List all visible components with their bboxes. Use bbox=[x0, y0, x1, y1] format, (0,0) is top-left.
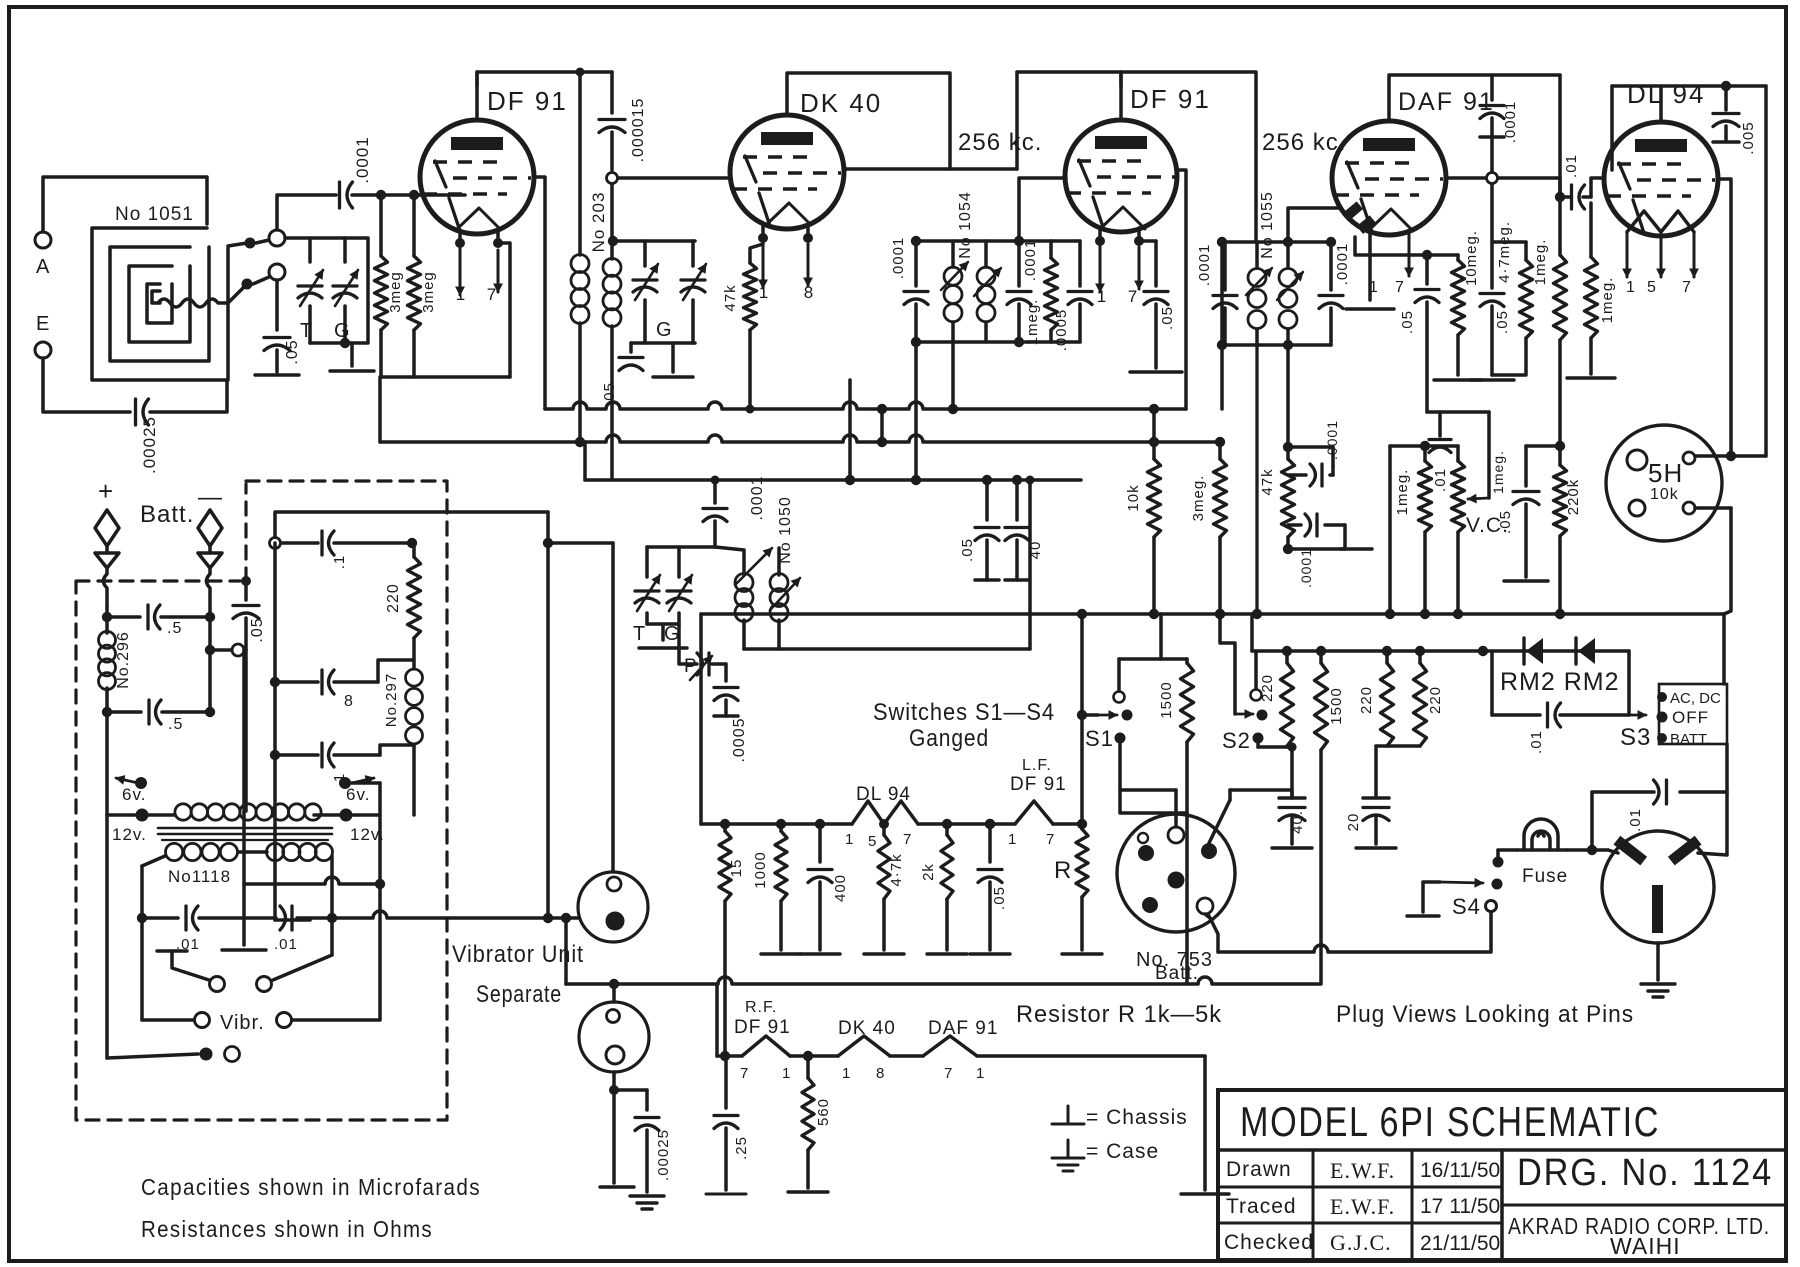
svg-text:Capacities shown in Microfa: Capacities shown in Microfarads bbox=[141, 1174, 481, 1200]
svg-text:220: 220 bbox=[385, 583, 402, 613]
wire plug2 bottom bbox=[612, 1072, 616, 1090]
wire 6v right rail bbox=[351, 781, 380, 785]
svg-text:.000015: .000015 bbox=[630, 98, 647, 163]
terminal A bbox=[35, 232, 51, 248]
node v4 out bbox=[1487, 173, 1498, 184]
ground mixer bbox=[671, 343, 675, 372]
svg-text:No1118: No1118 bbox=[168, 867, 231, 886]
svg-text:256 kc.: 256 kc. bbox=[1262, 129, 1346, 156]
svg-text:1500: 1500 bbox=[1158, 681, 1175, 718]
tube V5 DL94 bbox=[1604, 122, 1718, 236]
capacitor .5 b bbox=[107, 710, 141, 714]
trimmer mixer G bbox=[681, 278, 705, 281]
trimmer G bbox=[333, 284, 357, 287]
wire HT drop left bbox=[699, 614, 703, 824]
svg-text:No.297: No.297 bbox=[383, 673, 400, 727]
svg-text:5: 5 bbox=[1647, 279, 1657, 296]
svg-text:.005: .005 bbox=[1740, 121, 1757, 154]
svg-text:.05: .05 bbox=[991, 886, 1008, 910]
svg-text:Checked: Checked bbox=[1224, 1231, 1314, 1254]
s3 contacts bbox=[1657, 692, 1667, 702]
wire v5 plate right bbox=[1764, 86, 1768, 456]
switch S2 bbox=[1251, 690, 1262, 701]
bus3 to bus2 left link bbox=[583, 442, 587, 480]
svg-text:.0001: .0001 bbox=[749, 475, 766, 520]
svg-text:DF 91: DF 91 bbox=[1130, 84, 1211, 114]
svg-text:.05: .05 bbox=[1399, 310, 1416, 334]
svg-text:1meg.: 1meg. bbox=[1599, 277, 1616, 324]
svg-text:1meg.: 1meg. bbox=[1024, 299, 1041, 346]
coil No296 bbox=[105, 608, 109, 633]
svg-text:Batt.: Batt. bbox=[140, 501, 194, 528]
svg-text:OFF: OFF bbox=[1672, 708, 1709, 727]
tent DF91 fil bbox=[1015, 801, 1053, 824]
resistor 1meg dl a bbox=[1558, 197, 1562, 255]
svg-text:S4: S4 bbox=[1452, 894, 1481, 919]
svg-text:7: 7 bbox=[1128, 287, 1138, 306]
coil 1055 b bbox=[1286, 242, 1290, 267]
svg-text:Plug Views Looking at Pins: Plug Views Looking at Pins bbox=[1336, 1001, 1634, 1028]
terminal aerial coupling 2 bbox=[253, 277, 269, 284]
ground plug ac bbox=[1656, 943, 1660, 980]
resistor 1500 a bbox=[1185, 659, 1189, 663]
svg-text:2k: 2k bbox=[920, 863, 937, 881]
tent DK40 fil bbox=[838, 1036, 890, 1056]
wire s1 top bbox=[1117, 659, 1121, 691]
capacitor .01 s3 bbox=[1546, 703, 1549, 727]
pin v4 7 bbox=[1408, 234, 1411, 276]
svg-text:10k: 10k bbox=[1125, 484, 1142, 511]
resistor 1meg vc pot bbox=[1456, 446, 1460, 461]
tent DL94 filament bbox=[852, 801, 918, 824]
terminal 6v right bbox=[352, 778, 374, 783]
capacitor 40 reservoir bbox=[1012, 475, 1022, 485]
wire 1054 risers bbox=[914, 342, 918, 480]
svg-text:.0001: .0001 bbox=[890, 237, 907, 280]
svg-text:.1: .1 bbox=[331, 555, 348, 570]
wire v2 plate rail bbox=[787, 73, 1017, 169]
wire s1 res rail bbox=[1161, 657, 1187, 661]
svg-text:47k: 47k bbox=[722, 284, 739, 311]
svg-text:1500: 1500 bbox=[1328, 687, 1345, 724]
svg-text:220k: 220k bbox=[1565, 479, 1582, 516]
wire E lead bbox=[43, 358, 130, 412]
terminal 12v left bbox=[136, 809, 149, 822]
resistor 10k det bbox=[1152, 442, 1156, 459]
terminal 6v left bbox=[116, 778, 138, 783]
transformer secondary b bbox=[267, 843, 284, 860]
coil No203 bbox=[578, 72, 582, 255]
capacitor .1 vib a bbox=[320, 531, 323, 555]
wire rm2 loop bbox=[1627, 651, 1631, 715]
wire rm2 top bbox=[1483, 649, 1629, 653]
svg-text:7: 7 bbox=[944, 1065, 953, 1082]
pin v3 7 bbox=[1137, 228, 1141, 241]
coil osc tank a bbox=[715, 547, 744, 575]
connector plug 2 bbox=[579, 1002, 649, 1072]
resistor 1000 bbox=[776, 819, 786, 829]
wire plug2 top bbox=[612, 984, 616, 1002]
svg-text:DK 40: DK 40 bbox=[838, 1018, 896, 1039]
fuse link plus bbox=[95, 510, 119, 546]
svg-text:8: 8 bbox=[344, 693, 354, 710]
svg-text:4·7meg.: 4·7meg. bbox=[1496, 221, 1513, 283]
svg-text:6v.: 6v. bbox=[122, 785, 146, 804]
svg-text:220: 220 bbox=[1358, 686, 1375, 714]
ift1055 frame bbox=[1222, 240, 1331, 244]
node antenna tap 1 bbox=[228, 243, 247, 246]
wire s1 bottom bbox=[1120, 744, 1187, 813]
svg-text:MODEL 6PI SCHEMATIC: MODEL 6PI SCHEMATIC bbox=[1240, 1098, 1660, 1145]
capacitor .0001 1054 left bbox=[914, 241, 918, 286]
wire v4 grid out bbox=[1446, 176, 1492, 180]
svg-text:BATT.: BATT. bbox=[1670, 731, 1710, 748]
capacitor .05 daf b bbox=[1490, 242, 1494, 288]
capacitor 40 electrolytic bbox=[1290, 747, 1294, 798]
svg-text:.01: .01 bbox=[274, 936, 298, 953]
coil osc tank b bbox=[777, 548, 781, 575]
svg-text:.0001: .0001 bbox=[1022, 239, 1039, 282]
wire plus lead bbox=[104, 568, 108, 608]
capacitor .0005 1054 bbox=[1078, 241, 1082, 286]
wire s3 down bbox=[1725, 744, 1729, 792]
svg-text:8: 8 bbox=[876, 1065, 885, 1082]
wire v1 plate down bbox=[534, 177, 545, 409]
node rail 203 bbox=[576, 68, 585, 77]
svg-text:.0005: .0005 bbox=[1053, 309, 1070, 352]
node 1054 bbox=[911, 236, 921, 246]
diode RM2 b bbox=[1578, 638, 1595, 664]
svg-text:E.W.F.: E.W.F. bbox=[1330, 1194, 1395, 1219]
wire trimmer2 box bbox=[647, 545, 715, 549]
wire vib rail bottom bbox=[275, 918, 310, 922]
svg-text:DF 91: DF 91 bbox=[734, 1017, 791, 1038]
plug 5H wires bbox=[1695, 454, 1766, 458]
capacitor .000015 bbox=[610, 72, 614, 113]
coil No297 bbox=[412, 638, 416, 668]
resistor 3meg a bbox=[379, 195, 383, 256]
wire spiral inner tap bbox=[158, 284, 247, 307]
node connector o bbox=[232, 644, 244, 656]
audio filament rail bbox=[701, 822, 852, 826]
wire s4 return bbox=[1330, 912, 1491, 952]
svg-text:S1: S1 bbox=[1085, 726, 1114, 751]
resistor 2k bbox=[946, 823, 948, 825]
svg-text:No 203: No 203 bbox=[589, 192, 608, 253]
wire v4 plate rail bbox=[1389, 75, 1560, 121]
wire vc rail bbox=[1390, 444, 1458, 448]
capacitor .1 vib b bbox=[320, 743, 323, 767]
svg-text:7: 7 bbox=[1046, 831, 1055, 848]
svg-text:DL 94: DL 94 bbox=[856, 784, 911, 805]
capacitor .0001 grid bbox=[338, 182, 341, 208]
capacitor .01 coupling bbox=[1570, 185, 1573, 209]
capacitor .05 audio bbox=[988, 824, 992, 862]
diode plates daf91 bbox=[1344, 201, 1363, 220]
connector plug 1 bbox=[578, 872, 648, 942]
coil L1 spiral loop antenna No1051 bbox=[92, 228, 228, 380]
capacitor .0001 det b bbox=[1315, 514, 1318, 536]
svg-text:RM2 RM2: RM2 RM2 bbox=[1500, 668, 1620, 696]
wire rf chain end bbox=[977, 1054, 1205, 1058]
audio rail mid bbox=[918, 822, 1015, 826]
fuse link minus bbox=[198, 510, 222, 546]
svg-text:7: 7 bbox=[1682, 279, 1692, 296]
svg-text:+: + bbox=[98, 476, 114, 506]
capacitor .5 a bbox=[107, 615, 140, 619]
svg-text:5: 5 bbox=[868, 833, 877, 850]
plug AC pins bbox=[1614, 836, 1648, 866]
wire 12v leads bbox=[107, 813, 136, 817]
svg-text:.05: .05 bbox=[959, 538, 976, 562]
svg-text:Vibrator Unit: Vibrator Unit bbox=[452, 941, 584, 968]
tube V4 DAF91 bbox=[1332, 121, 1446, 235]
bus chassis return bbox=[566, 977, 1320, 984]
svg-text:G: G bbox=[656, 319, 673, 341]
diode RM2 a bbox=[1526, 638, 1543, 664]
svg-text:.0001: .0001 bbox=[1334, 243, 1351, 286]
svg-text:Drawn: Drawn bbox=[1226, 1158, 1292, 1181]
svg-text:Resistor R 1k—5k: Resistor R 1k—5k bbox=[1016, 1001, 1222, 1028]
svg-text:.01: .01 bbox=[1528, 730, 1545, 754]
wire det ground bbox=[1288, 547, 1345, 551]
capacitor .25 bbox=[724, 1056, 728, 1108]
wire s3 feed bbox=[1722, 614, 1726, 684]
capacitor 400 bbox=[818, 824, 822, 862]
pin v1 1 bbox=[458, 230, 462, 243]
node 1055 bbox=[1217, 237, 1227, 247]
wire s4 arrow bbox=[1440, 882, 1483, 883]
resistor 15 bbox=[720, 819, 730, 829]
svg-text:S2: S2 bbox=[1222, 728, 1251, 753]
wire rf chain a bbox=[790, 1054, 838, 1058]
svg-text:DAF 91: DAF 91 bbox=[1398, 88, 1495, 116]
svg-text:256 kc.: 256 kc. bbox=[958, 129, 1042, 156]
svg-text:.5: .5 bbox=[167, 620, 182, 637]
terminal aerial coupling 1 bbox=[256, 240, 269, 243]
node antenna tap 2 bbox=[242, 279, 253, 290]
capacitor .05 v3 bbox=[1154, 241, 1158, 286]
legend case symbol bbox=[1067, 1140, 1070, 1158]
capacitor .00025 bbox=[134, 399, 137, 425]
trimmer G2 bbox=[667, 589, 691, 592]
svg-text:.0005: .0005 bbox=[731, 717, 748, 762]
wire centre tap bbox=[244, 650, 248, 811]
svg-text:DAF 91: DAF 91 bbox=[928, 1018, 998, 1039]
svg-text:8: 8 bbox=[804, 283, 814, 302]
svg-text:.00025: .00025 bbox=[655, 1129, 672, 1181]
tube V1 DF91 RF bbox=[420, 120, 534, 234]
wire vib rail bbox=[275, 512, 548, 543]
resistor 4.7meg bbox=[1524, 242, 1528, 260]
svg-text:6v.: 6v. bbox=[346, 785, 370, 804]
svg-text:.00025: .00025 bbox=[140, 416, 159, 474]
wire rf chain b bbox=[890, 1054, 923, 1058]
capacitor .05 reservoir bbox=[982, 475, 992, 485]
capacitor .0001 1055 right bbox=[1329, 242, 1333, 290]
svg-text:1: 1 bbox=[1369, 279, 1379, 296]
svg-text:1meg.: 1meg. bbox=[1490, 450, 1506, 494]
wire trimmer rail bbox=[285, 238, 368, 343]
svg-text:E: E bbox=[36, 313, 50, 335]
trimmer T bbox=[298, 284, 322, 287]
wire v3 rail to 1055 bbox=[1121, 72, 1256, 242]
wire v5 grid right bbox=[1718, 179, 1731, 456]
svg-text:7: 7 bbox=[487, 285, 497, 304]
svg-text:1: 1 bbox=[845, 831, 854, 848]
wire plug batt right bbox=[1205, 914, 1210, 918]
svg-text:.0001: .0001 bbox=[1298, 548, 1314, 588]
svg-text:DF 91: DF 91 bbox=[1010, 774, 1067, 795]
capacitor 20 electrolytic bbox=[1374, 746, 1378, 798]
wire centre tap chain bbox=[242, 650, 246, 945]
svg-text:.5: .5 bbox=[168, 716, 183, 733]
wire s1 arrow bbox=[1098, 714, 1117, 717]
capacitor .0001 1054 right bbox=[1017, 241, 1021, 286]
wire v4 diode line bbox=[1355, 237, 1427, 255]
svg-text:Resistances shown in Ohms: Resistances shown in Ohms bbox=[141, 1216, 433, 1242]
svg-text:.01: .01 bbox=[1627, 808, 1644, 832]
svg-text:No.296: No.296 bbox=[115, 631, 132, 689]
svg-text:1000: 1000 bbox=[752, 851, 769, 888]
svg-text:1: 1 bbox=[782, 1065, 791, 1082]
wire plug batt top bbox=[1174, 790, 1178, 827]
svg-text:R: R bbox=[1054, 857, 1072, 884]
svg-text:No 1054: No 1054 bbox=[957, 191, 974, 259]
transformer core bbox=[158, 827, 332, 830]
plug 5H pins bbox=[1627, 450, 1647, 470]
svg-text:.01: .01 bbox=[1563, 154, 1580, 178]
trimmer mixer T bbox=[633, 278, 657, 281]
svg-text:5H: 5H bbox=[1648, 458, 1683, 488]
plug 5H outline bbox=[1606, 425, 1722, 541]
transformer primary bbox=[175, 804, 191, 820]
wire fuse row bbox=[1498, 848, 1517, 852]
switch S3 box bbox=[1659, 684, 1727, 744]
svg-text:Separate: Separate bbox=[476, 981, 562, 1008]
svg-text:DK 40: DK 40 bbox=[800, 88, 882, 118]
resistor 1meg dl b bbox=[1589, 203, 1593, 257]
pin v5 7 bbox=[1693, 232, 1696, 277]
svg-text:1: 1 bbox=[976, 1065, 985, 1082]
svg-text:No 1055: No 1055 bbox=[1259, 191, 1276, 259]
wire plug ac right bbox=[1698, 792, 1727, 855]
svg-text:17 11/50: 17 11/50 bbox=[1420, 1195, 1500, 1218]
resistor 47k bbox=[750, 244, 763, 263]
tent DAF91 fil bbox=[923, 1036, 977, 1056]
svg-text:Traced: Traced bbox=[1226, 1195, 1297, 1218]
svg-text:220: 220 bbox=[1259, 674, 1276, 702]
wire v3 cathode tie bbox=[1139, 239, 1156, 243]
svg-text:.0001: .0001 bbox=[353, 136, 372, 184]
svg-text:1: 1 bbox=[456, 285, 466, 304]
resistor 220 b bbox=[1385, 651, 1389, 663]
svg-text:10meg.: 10meg. bbox=[1463, 230, 1480, 286]
svg-text:40: 40 bbox=[1027, 541, 1044, 560]
svg-text:Vibr.: Vibr. bbox=[220, 1012, 265, 1034]
pin v1 7 bbox=[496, 230, 500, 243]
pin v5 1 bbox=[1626, 232, 1629, 277]
svg-text:16/11/50: 16/11/50 bbox=[1420, 1159, 1500, 1182]
resistor 220 a bbox=[1285, 651, 1289, 663]
svg-text:3meg.: 3meg. bbox=[1190, 475, 1207, 522]
resistor 220 c bbox=[1418, 651, 1422, 663]
capacitor 8 bbox=[320, 670, 323, 694]
svg-text:.05: .05 bbox=[1494, 310, 1511, 334]
svg-text:7: 7 bbox=[740, 1065, 749, 1082]
capacitor .01 vib a bbox=[142, 916, 178, 920]
svg-text:560: 560 bbox=[815, 1098, 832, 1126]
wire 1055 to grid bbox=[1288, 208, 1340, 242]
svg-text:7: 7 bbox=[1395, 279, 1405, 296]
capacitor .00025 b bbox=[614, 1088, 647, 1092]
wire vc top bbox=[1427, 410, 1489, 414]
wire v4 out to .01 bbox=[1498, 176, 1560, 180]
svg-text:.25: .25 bbox=[733, 1136, 750, 1160]
coil 1054 b bbox=[984, 241, 988, 267]
wire v1 plate rail bbox=[477, 72, 612, 120]
svg-text:10k: 10k bbox=[1650, 486, 1679, 503]
transformer secondary a bbox=[166, 843, 183, 860]
svg-text:A: A bbox=[36, 256, 50, 278]
capacitor .005 bbox=[1721, 81, 1731, 91]
coil 1054 a bbox=[951, 241, 955, 267]
resistor 1500 b bbox=[1319, 651, 1323, 663]
dashed box battery bbox=[76, 481, 447, 1120]
resistor 220 vib bbox=[412, 543, 416, 557]
trimmer T2 bbox=[635, 589, 659, 592]
svg-text:.05: .05 bbox=[284, 339, 301, 364]
svg-text:.0001: .0001 bbox=[1196, 244, 1213, 287]
svg-text:1: 1 bbox=[1008, 831, 1017, 848]
svg-text:T: T bbox=[633, 623, 646, 645]
tube V3 DF91 IF bbox=[1065, 120, 1177, 232]
coil 1055 a bbox=[1255, 242, 1259, 267]
svg-text:DRG. No. 1124: DRG. No. 1124 bbox=[1517, 1152, 1773, 1194]
capacitor .01 vc bbox=[1438, 412, 1442, 436]
wire trimmer2 bottoms bbox=[645, 613, 649, 624]
plug batt outline bbox=[1117, 814, 1235, 932]
svg-text:1: 1 bbox=[842, 1065, 851, 1082]
svg-text:AC, DC: AC, DC bbox=[1670, 690, 1721, 707]
svg-text:WAIHI: WAIHI bbox=[1610, 1233, 1681, 1259]
svg-text:12v.: 12v. bbox=[112, 825, 147, 844]
vibrator reed bbox=[195, 1013, 210, 1028]
svg-text:R.F.: R.F. bbox=[745, 999, 777, 1016]
wire osc grid line bbox=[610, 184, 614, 259]
capacitor .0005 osc bbox=[679, 624, 697, 664]
svg-text:220: 220 bbox=[1427, 686, 1444, 714]
resistor 47k det bbox=[1283, 442, 1293, 452]
switch S1 bbox=[1114, 692, 1125, 703]
resistor 220k bbox=[1554, 465, 1567, 536]
tube V2 DK40 bbox=[730, 115, 844, 229]
resistor 3meg b bbox=[412, 195, 416, 256]
wire resistor rail 651 bbox=[1252, 649, 1483, 653]
wire if riser bbox=[1152, 409, 1156, 442]
svg-text:.05: .05 bbox=[1497, 510, 1514, 534]
svg-text:21/11/50: 21/11/50 bbox=[1420, 1232, 1500, 1255]
wire coupling to grid cap bbox=[277, 195, 336, 230]
capacitor .0001 1055 left bbox=[1223, 242, 1227, 290]
capacitor .05 mixer bbox=[629, 343, 633, 352]
svg-text:40.: 40. bbox=[1289, 810, 1306, 834]
svg-text:1meg.: 1meg. bbox=[1394, 469, 1411, 516]
tent RF DF91 bbox=[742, 1036, 790, 1056]
svg-text:E.W.F.: E.W.F. bbox=[1330, 1158, 1395, 1183]
svg-text:—: — bbox=[198, 484, 223, 511]
svg-text:L.F.: L.F. bbox=[1022, 757, 1052, 774]
